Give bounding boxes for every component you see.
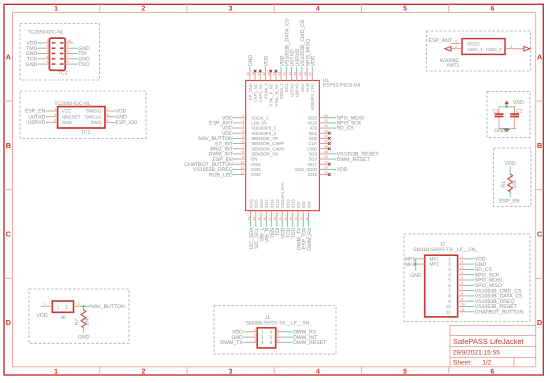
svg-text:38: 38 — [303, 72, 307, 76]
svg-text:27: 27 — [324, 160, 328, 164]
svg-text:3: 3 — [261, 340, 264, 345]
title block — [450, 325, 536, 366]
connector J6 body — [52, 301, 73, 312]
svg-text:IO26: IO26 — [259, 199, 264, 209]
TC1 pin 2 with net TMS (wire + label) — [26, 44, 49, 52]
J2 pin 2 with net GND (wire + label) — [458, 260, 487, 268]
svg-text:SWDIO: SWDIO — [86, 109, 102, 114]
svg-text:10: 10 — [461, 303, 465, 307]
U1 pin 16 with net VIB_R (wire + label) — [263, 211, 271, 243]
svg-text:32: 32 — [324, 134, 328, 138]
U1 pin 18 with net TDI (wire + label) — [273, 211, 281, 236]
svg-text:GND: GND — [248, 55, 254, 67]
svg-text:IO16: IO16 — [307, 172, 317, 177]
svg-text:IO15: IO15 — [291, 199, 296, 209]
svg-text:6: 6 — [490, 368, 494, 375]
svg-text:1/2: 1/2 — [482, 360, 491, 367]
TC1 pin 6 with net TDO (wire + label) — [65, 60, 89, 68]
svg-text:4: 4 — [107, 113, 109, 117]
svg-text:46: 46 — [262, 72, 266, 76]
svg-text:1: 1 — [254, 328, 256, 332]
TC2 pin 3 with net U0TXD (wire + label) — [28, 113, 57, 121]
J1 pin 4 with net DWM_RX (wire + label) — [276, 328, 317, 336]
svg-text:29: 29 — [324, 150, 328, 154]
J2 mounting pad MP1 (wire + label) — [405, 257, 425, 263]
connector J1 body — [257, 328, 276, 348]
U1 pin 26 with net VDD (wire + label) — [319, 166, 347, 174]
svg-text:IO12: IO12 — [275, 199, 280, 209]
U1 pin 9 with net ESP_EN (wire + label) — [212, 155, 245, 163]
svg-text:C: C — [537, 230, 542, 239]
U1 pin 49 with net GND (wire + label) — [246, 55, 254, 81]
module boundary box (nav button) — [29, 289, 129, 343]
TC1 pin 5 with net GND (wire + label) — [26, 60, 50, 68]
svg-text:3: 3 — [461, 266, 463, 270]
svg-text:B: B — [537, 141, 542, 150]
svg-text:VDD: VDD — [513, 100, 524, 106]
connector J2 body — [425, 255, 458, 317]
svg-text:7: 7 — [448, 288, 451, 293]
svg-text:4: 4 — [270, 329, 273, 334]
wire junction to R7 — [83, 306, 85, 310]
svg-text:48: 48 — [251, 72, 255, 76]
TC1 pin 4 with net TCK (wire + label) — [27, 55, 50, 63]
svg-text:ANT1: ANT1 — [447, 63, 460, 69]
junction at MP2 — [415, 263, 417, 265]
svg-text:2: 2 — [107, 107, 109, 111]
svg-text:30: 30 — [324, 145, 328, 149]
U1 pin 31 (not connected) — [319, 140, 330, 145]
svg-text:5: 5 — [46, 60, 48, 64]
svg-text:28: 28 — [324, 155, 328, 159]
svg-text:TDO: TDO — [78, 62, 89, 68]
svg-text:SM11B-SRSS-TB-_LF__SN_: SM11B-SRSS-TB-_LF__SN_ — [413, 247, 478, 253]
U1 pin 45 (not connected) — [267, 70, 272, 81]
wire VDD rail — [499, 104, 516, 107]
svg-text:FEED: FEED — [468, 41, 481, 46]
junction at R7 tap — [83, 305, 85, 307]
U1 pin 7 with net BNO_INT (wire + label) — [210, 145, 245, 153]
U1 pin 39 with net VS1053B_CMD_CS (wire + label) — [298, 19, 306, 80]
J2 pin 7 with net VS1053B_CMD_CS (wire + label) — [458, 287, 522, 295]
J2 pin 1 with net VDD (wire + label) — [458, 255, 486, 263]
svg-text:1: 1 — [261, 329, 264, 334]
U1 pin 29 with net VS1053B_RESET (wire + label) — [319, 150, 379, 158]
svg-text:SWO: SWO — [90, 120, 101, 125]
svg-text:GND: GND — [62, 120, 73, 125]
svg-text:1: 1 — [54, 6, 58, 13]
wire R1 to ESP_EN — [509, 191, 511, 197]
svg-text:MP1: MP1 — [430, 256, 440, 261]
junction on GND rail — [506, 128, 508, 130]
TC2 pin 1 with net ESP_EN (wire + label) — [25, 107, 58, 115]
svg-text:5: 5 — [403, 368, 407, 375]
svg-text:3: 3 — [242, 124, 244, 128]
svg-text:6: 6 — [490, 6, 494, 13]
svg-text:2: 2 — [461, 260, 463, 264]
U1 pin 35 with net SPI3_SCK (wire + label) — [319, 119, 362, 127]
U1 pin 43 with net VDD (wire + label) — [277, 55, 285, 80]
svg-text:D: D — [537, 318, 542, 327]
svg-text:11: 11 — [446, 309, 451, 314]
U1 pin 34 with net SD_CS (wire + label) — [319, 124, 354, 132]
U1 pin 36 with net SPI3_MOSI (wire + label) — [319, 114, 364, 122]
svg-text:37: 37 — [309, 72, 313, 76]
svg-text:Sheet:: Sheet: — [453, 360, 472, 367]
svg-text:D: D — [6, 318, 11, 327]
U1 pin 30 (not connected) — [319, 145, 330, 150]
svg-text:43: 43 — [277, 72, 281, 76]
svg-text:C2: C2 — [516, 108, 523, 114]
svg-text:5: 5 — [448, 278, 451, 283]
svg-text:RGB_LED: RGB_LED — [209, 172, 233, 178]
module boundary box (audio connector) — [404, 234, 530, 322]
svg-text:5: 5 — [54, 119, 56, 123]
svg-text:VDD3P3_RTC: VDD3P3_RTC — [280, 182, 285, 209]
svg-text:34: 34 — [324, 124, 328, 128]
U1 pin 12 with net RGB_LED (wire + label) — [209, 171, 246, 179]
resistor R7 10k — [75, 310, 91, 328]
svg-text:10: 10 — [240, 160, 244, 164]
svg-text:1: 1 — [54, 107, 56, 111]
svg-text:8: 8 — [242, 150, 244, 154]
svg-text:B: B — [6, 141, 11, 150]
svg-text:ESP_ANT: ESP_ANT — [429, 38, 453, 44]
module boundary box (EN pull-up) — [494, 148, 532, 207]
TC1 pin 7 with net GND (wire + label) — [65, 55, 90, 63]
U1 pin 48 (not connected) — [251, 70, 256, 81]
svg-text:33: 33 — [324, 129, 328, 133]
U1 pin 42 with net VS1053B_DATA_CS (wire + label) — [283, 18, 291, 81]
U1 pin 44 (not connected) — [272, 70, 277, 81]
U1 pin 28 with net DWM_RESET (wire + label) — [319, 155, 370, 163]
svg-text:TC2: TC2 — [81, 130, 91, 136]
svg-text:IO2: IO2 — [296, 201, 301, 208]
svg-text:7: 7 — [461, 287, 463, 291]
svg-text:IO13: IO13 — [285, 199, 290, 209]
U1 bottom internal pin names — [248, 182, 311, 209]
svg-text:9: 9 — [242, 155, 244, 159]
svg-text:NAV_BUTTON: NAV_BUTTON — [90, 304, 125, 310]
U1 pin 14 with net I2C_SCL (wire + label) — [252, 211, 260, 249]
svg-text:3: 3 — [229, 368, 233, 375]
U1 pin 3 with net VDD (wire + label) — [222, 124, 246, 132]
U1 pin 5 with net NAV_BUTTON (wire + label) — [198, 134, 245, 142]
svg-text:9: 9 — [461, 297, 463, 301]
svg-text:10k: 10k — [512, 179, 518, 188]
J2 pin 6 with net SPI3_MISO (wire + label) — [458, 281, 502, 289]
IC U1 ESP32-PICO-D4 body — [246, 81, 320, 211]
capacitor C2 — [510, 107, 523, 129]
svg-text:GND_2: GND_2 — [486, 47, 502, 52]
U1 pin 20 with net TCK (wire + label) — [284, 211, 292, 238]
U1 pin 21 with net TDO (wire + label) — [289, 211, 297, 239]
U1 pin 41 with net U0TXD (wire + label) — [288, 49, 296, 80]
svg-text:3: 3 — [254, 338, 256, 342]
svg-text:1: 1 — [46, 39, 48, 43]
svg-text:29/9/2021 15:55: 29/9/2021 15:55 — [453, 350, 501, 357]
U1 pin 25 (not connected) — [319, 171, 330, 176]
U1 pin 1 with net VDD (wire + label) — [222, 114, 246, 122]
svg-text:11: 11 — [461, 308, 465, 312]
U1 pin 6 with net ST_INT (wire + label) — [215, 140, 246, 148]
connector TC2 body — [58, 107, 105, 128]
svg-text:TC2050-IDC-NL: TC2050-IDC-NL — [28, 30, 64, 36]
U1 pin 23 with net ESP_IO0 (wire + label) — [300, 211, 308, 250]
svg-text:GND: GND — [26, 62, 38, 68]
svg-text:J6: J6 — [60, 315, 66, 321]
svg-text:2: 2 — [448, 262, 451, 267]
svg-text:3: 3 — [229, 6, 233, 13]
svg-text:2: 2 — [46, 44, 48, 48]
svg-text:4: 4 — [448, 272, 451, 277]
svg-text:2: 2 — [78, 302, 80, 306]
ANT1 pin 1 FEED with net ESP_ANT (wire + label) — [429, 38, 463, 44]
svg-text:A: A — [6, 52, 11, 61]
svg-text:ESP32-PICO-D4: ESP32-PICO-D4 — [323, 83, 361, 89]
svg-text:MP2: MP2 — [405, 262, 416, 268]
svg-text:10: 10 — [446, 304, 452, 309]
svg-text:6: 6 — [461, 281, 463, 285]
svg-text:A: A — [537, 52, 542, 61]
U1 pin 8 with net DWM_INT (wire + label) — [209, 150, 246, 158]
TC1 pin 9 with net GND (wire + label) — [65, 44, 90, 52]
U1 pin 24 with net DWM_RX (wire + label) — [305, 211, 313, 251]
svg-text:9: 9 — [448, 299, 451, 304]
U1 pin 4 with net VDD (wire + label) — [222, 129, 246, 137]
svg-text:NRESET: NRESET — [62, 114, 81, 119]
U1 top internal pin names — [248, 83, 315, 111]
J2 pin 11 with net CHATBOT_BUTTON (wire + label) — [458, 308, 524, 316]
U1 left internal pin names — [251, 115, 284, 177]
svg-text:4: 4 — [316, 6, 320, 13]
svg-text:39: 39 — [298, 72, 302, 76]
svg-text:IO27: IO27 — [264, 199, 269, 209]
svg-text:6: 6 — [242, 140, 244, 144]
J1 pin 1 with net VDD (wire + label) — [232, 328, 257, 336]
svg-text:VDD: VDD — [37, 313, 48, 319]
svg-text:IO32: IO32 — [251, 172, 261, 177]
power symbol VDD — [505, 100, 524, 106]
svg-text:2: 2 — [141, 6, 145, 13]
svg-text:2: 2 — [455, 45, 457, 49]
svg-text:DWM_RX: DWM_RX — [307, 227, 313, 251]
svg-text:IO0: IO0 — [301, 201, 306, 208]
svg-text:VCC: VCC — [62, 109, 72, 114]
U1 pin 11 with net VS1053B_DREQ (wire + label) — [193, 166, 246, 174]
svg-text:1: 1 — [44, 302, 46, 306]
svg-text:8: 8 — [461, 292, 463, 296]
antenna ANT1 value + reference labels — [440, 58, 460, 69]
svg-text:36: 36 — [324, 114, 328, 118]
J1 pin 2 with net GND (wire + label) — [231, 333, 257, 341]
svg-text:1: 1 — [57, 305, 60, 310]
svg-text:6: 6 — [448, 283, 451, 288]
svg-text:GND: GND — [410, 273, 422, 279]
U1 pin 33 (not connected) — [319, 129, 330, 134]
svg-text:2: 2 — [254, 333, 256, 337]
svg-text:IO33: IO33 — [248, 199, 253, 209]
svg-text:42: 42 — [283, 72, 287, 76]
svg-text:45: 45 — [267, 72, 271, 76]
svg-text:11: 11 — [241, 166, 245, 170]
svg-text:C1: C1 — [493, 108, 500, 114]
svg-text:4: 4 — [316, 368, 320, 375]
U1 pin 10 with net CHATBOT_BUTTON (wire + label) — [184, 160, 245, 168]
svg-text:DWM_RESET: DWM_RESET — [337, 157, 371, 163]
svg-text:3: 3 — [46, 50, 48, 54]
module boundary box (TC2 SWD) — [20, 91, 146, 139]
svg-text:25: 25 — [324, 171, 328, 175]
svg-text:7: 7 — [67, 55, 69, 59]
J2 pin 8 with net VS1053B_DATA_CS (wire + label) — [458, 292, 524, 300]
wire R7 to GND — [83, 327, 85, 332]
U1 pin 17 with net TMS (wire + label) — [268, 211, 276, 239]
svg-text:41: 41 — [288, 72, 292, 76]
TC2 pin 6 with net ESP_IO0 (wire + label) — [105, 119, 137, 127]
module boundary box (DWM connector) — [214, 306, 336, 355]
svg-text:5: 5 — [242, 134, 244, 138]
svg-text:44: 44 — [272, 72, 276, 76]
TC2 pin 4 with net GND (wire + label) — [105, 113, 127, 121]
U1 pin 32 (not connected) — [319, 134, 330, 139]
svg-text:DWM_RESET: DWM_RESET — [293, 340, 327, 346]
svg-text:IO4: IO4 — [306, 201, 311, 208]
svg-text:1: 1 — [242, 114, 244, 118]
svg-text:IO14: IO14 — [270, 199, 275, 209]
svg-text:2: 2 — [65, 305, 68, 310]
capacitor C1 — [493, 107, 504, 129]
svg-text:R7: R7 — [75, 318, 81, 325]
svg-text:5: 5 — [277, 333, 279, 337]
U1 pin 19 with net VDD (wire + label) — [278, 211, 286, 239]
svg-text:4: 4 — [46, 55, 48, 59]
svg-text:5: 5 — [461, 276, 463, 280]
svg-text:VDD: VDD — [311, 55, 317, 66]
U1 pin 22 with net DWM_TX (wire + label) — [294, 211, 302, 250]
junction on VDD rail — [506, 106, 508, 108]
svg-text:DWM_TX: DWM_TX — [220, 340, 243, 346]
J2 pin 10 with net VS1053B_RESET (wire + label) — [458, 303, 518, 311]
module boundary box (decoupling) — [487, 92, 530, 138]
J2 pin 3 with net SD_CS (wire + label) — [458, 266, 493, 274]
TC2 pin 2 with net VDD (wire + label) — [105, 107, 127, 115]
svg-text:VDD: VDD — [264, 55, 270, 66]
module boundary box (TC1 JTAG) — [20, 24, 100, 81]
J6 pin 1 with net VDD (wire + label) — [37, 302, 53, 319]
J2 pin 4 with net SPI3_SCK (wire + label) — [458, 271, 500, 279]
U1 pin 2 with net ESP_ANT (wire + label) — [209, 119, 246, 127]
J2 pin 5 with net SPI3_MOSI (wire + label) — [458, 276, 502, 284]
svg-text:C: C — [6, 230, 11, 239]
svg-text:35: 35 — [324, 119, 328, 123]
TC2 pin 5 with net U0RXD (wire + label) — [28, 119, 58, 127]
ANT1 pin 3 GND_2 with ground arrow symbol — [505, 45, 530, 51]
svg-text:ESP_EN: ESP_EN — [499, 198, 520, 204]
wire MP pads to GND — [415, 259, 417, 271]
resistor R1 10k — [501, 174, 518, 191]
module boundary box (antenna) — [427, 31, 531, 71]
wire VDD to R1 — [509, 166, 511, 174]
TC1 pin 8 with net TDI (wire + label) — [65, 50, 86, 58]
svg-text:GND: GND — [78, 334, 90, 340]
svg-text:SM06B-SRSS-TB__LF__SN_: SM06B-SRSS-TB__LF__SN_ — [246, 321, 313, 327]
svg-text:12: 12 — [240, 171, 244, 175]
ANT1 pin 2 GND_1 with ground arrow symbol — [445, 45, 462, 51]
TC1 pin 3 with net GND (wire + label) — [26, 50, 50, 58]
svg-text:6: 6 — [67, 60, 69, 64]
svg-text:SD_CS: SD_CS — [337, 126, 355, 132]
svg-text:3: 3 — [54, 113, 56, 117]
J1 pin 5 with net DWM_INT (wire + label) — [276, 333, 319, 341]
U1 pin 38 with net SPI3_MISO (wire + label) — [303, 39, 311, 80]
svg-text:4: 4 — [277, 328, 279, 332]
U1 pin 15 with net VIB_L (wire + label) — [257, 211, 265, 242]
J1 pin 3 with net DWM_TX (wire + label) — [220, 338, 257, 346]
svg-text:4: 4 — [242, 129, 244, 133]
svg-text:6: 6 — [277, 338, 279, 342]
J6 pin 2 with net NAV_BUTTON (wire + label) — [74, 302, 125, 310]
svg-text:1: 1 — [461, 255, 463, 259]
U1 pin 13 with net I2C_SDA (wire + label) — [247, 211, 255, 250]
svg-text:6: 6 — [270, 340, 273, 345]
svg-text:31: 31 — [324, 140, 328, 144]
U1 pin 40 with net U0RXD (wire + label) — [293, 49, 301, 81]
U1 right internal pin names — [295, 115, 318, 177]
svg-text:SWCLK: SWCLK — [85, 114, 102, 119]
svg-text:TC1: TC1 — [58, 71, 68, 77]
ground symbol GND — [494, 128, 509, 134]
U1 pin 37 with net VDD (wire + label) — [309, 55, 317, 80]
antenna ANT1 body — [462, 39, 505, 55]
svg-text:26: 26 — [324, 166, 328, 170]
TC2 internal pin names — [62, 109, 102, 125]
J2 pin 9 with net VS1053B_DREQ (wire + label) — [458, 297, 515, 305]
U1 pin 46 with net VDD (wire + label) — [262, 55, 270, 80]
svg-text:MP2: MP2 — [430, 262, 440, 267]
U1 pin 47 (not connected) — [257, 70, 262, 81]
wire GND rail — [499, 128, 516, 130]
svg-text:ESP_IO0: ESP_IO0 — [115, 120, 137, 126]
svg-text:GND_1: GND_1 — [468, 47, 484, 52]
J1 pin 6 with net DWM_RESET (wire + label) — [276, 338, 327, 346]
svg-text:49: 49 — [246, 72, 250, 76]
svg-text:SafePASS LifeJacket: SafePASS LifeJacket — [453, 337, 525, 346]
svg-text:R1: R1 — [501, 181, 507, 188]
svg-text:1: 1 — [455, 40, 457, 44]
J2 mounting pad MP2 (wire + label) — [405, 262, 425, 268]
svg-text:3: 3 — [448, 267, 451, 272]
svg-text:9: 9 — [67, 44, 69, 48]
connector TC1 body — [49, 38, 65, 70]
svg-text:10: 10 — [67, 39, 71, 43]
svg-text:47: 47 — [257, 72, 261, 76]
svg-text:U0RXD: U0RXD — [28, 120, 46, 126]
svg-text:5: 5 — [403, 6, 407, 13]
svg-text:4: 4 — [461, 271, 463, 275]
svg-text:2: 2 — [242, 119, 244, 123]
svg-text:7: 7 — [242, 145, 244, 149]
svg-text:VDD: VDD — [337, 167, 348, 173]
svg-text:1: 1 — [54, 368, 58, 375]
svg-text:6: 6 — [107, 119, 109, 123]
U1 pin 27 (not connected) — [319, 160, 330, 165]
antenna ANT1 internal pin names — [468, 41, 503, 52]
TC1 pin 10 (unconnected) — [65, 39, 73, 43]
svg-text:CHATBOT_BUTTON: CHATBOT_BUTTON — [475, 310, 524, 316]
svg-text:2: 2 — [141, 368, 145, 375]
IC U1 reference + value labels — [323, 78, 361, 89]
